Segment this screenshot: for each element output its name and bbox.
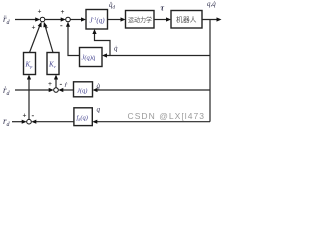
svg-text:J̇(q)q̇: J̇(q)q̇ xyxy=(82,55,96,62)
op block U1 J^-1(q) xyxy=(86,10,108,30)
wire S4 up to Kp xyxy=(27,75,31,120)
svg-text:机器人: 机器人 xyxy=(176,15,197,24)
wire bus tap to J(q) input xyxy=(93,88,211,92)
svg-text:J-1(q): J-1(q) xyxy=(90,16,106,25)
wire J(q) output to S3 xyxy=(58,88,73,92)
svg-text:-: - xyxy=(60,21,63,30)
svg-text:-: - xyxy=(60,80,63,89)
block U7 J(q) xyxy=(74,82,93,97)
svg-text:fk(q): fk(q) xyxy=(77,115,88,123)
svg-text:J(q): J(q) xyxy=(77,88,87,95)
svg-text:+: + xyxy=(48,80,52,88)
summing junction S2 xyxy=(66,17,71,22)
wire bus corner to fk(q) input xyxy=(92,120,210,124)
block U8 fk(q) xyxy=(74,108,92,126)
svg-text:+: + xyxy=(61,8,65,16)
svg-text:+: + xyxy=(23,112,27,120)
svg-text:q,q̇: q,q̇ xyxy=(207,0,216,8)
wire U4 output to S2 bottom xyxy=(66,22,80,56)
wire Kp output diagonal to S1 xyxy=(30,22,42,53)
wire U2 to U3 xyxy=(154,17,171,21)
summing junction S3 xyxy=(54,88,59,93)
summing junction S4 xyxy=(27,119,32,124)
svg-text:CSDN @LX[l473: CSDN @LX[l473 xyxy=(128,111,206,121)
svg-text:q: q xyxy=(97,106,101,114)
wire feedback bus vertical xyxy=(209,20,211,122)
block U2 dynamics xyxy=(126,11,155,29)
wire r_dd to summing junction S1 xyxy=(15,17,40,21)
svg-text:+: + xyxy=(32,24,36,32)
summing junction S1 xyxy=(40,17,45,22)
block U5 Kp xyxy=(24,53,36,75)
svg-text:τ: τ xyxy=(161,4,165,13)
svg-text:-: - xyxy=(32,111,35,120)
block U3 robot xyxy=(171,11,202,29)
wire r_d to S4 xyxy=(12,120,27,124)
wire bus tap to U4 input xyxy=(102,53,210,57)
wire S1 to S2 xyxy=(45,17,66,21)
block U6 Kv xyxy=(47,53,59,75)
wire S3 up to Kv xyxy=(54,75,58,88)
wire rdot_d to S3 xyxy=(15,88,54,92)
wire S2 to block U1 xyxy=(70,17,86,21)
svg-text:+: + xyxy=(38,8,42,16)
block U4 Jdot(q)qdot xyxy=(80,48,103,67)
svg-text:q̇: q̇ xyxy=(97,82,101,90)
wire branch up into U1 bottom xyxy=(92,29,110,56)
wire U1 to U2 xyxy=(108,17,126,21)
svg-text:运动力学: 运动力学 xyxy=(128,15,152,24)
svg-text:ṙ: ṙ xyxy=(65,81,68,89)
wire U3 to output xyxy=(202,17,222,21)
wire Kv output diagonal to S1 xyxy=(43,22,53,53)
wire fk(q) output to S4 xyxy=(31,120,74,124)
svg-text:q̇: q̇ xyxy=(114,45,118,53)
